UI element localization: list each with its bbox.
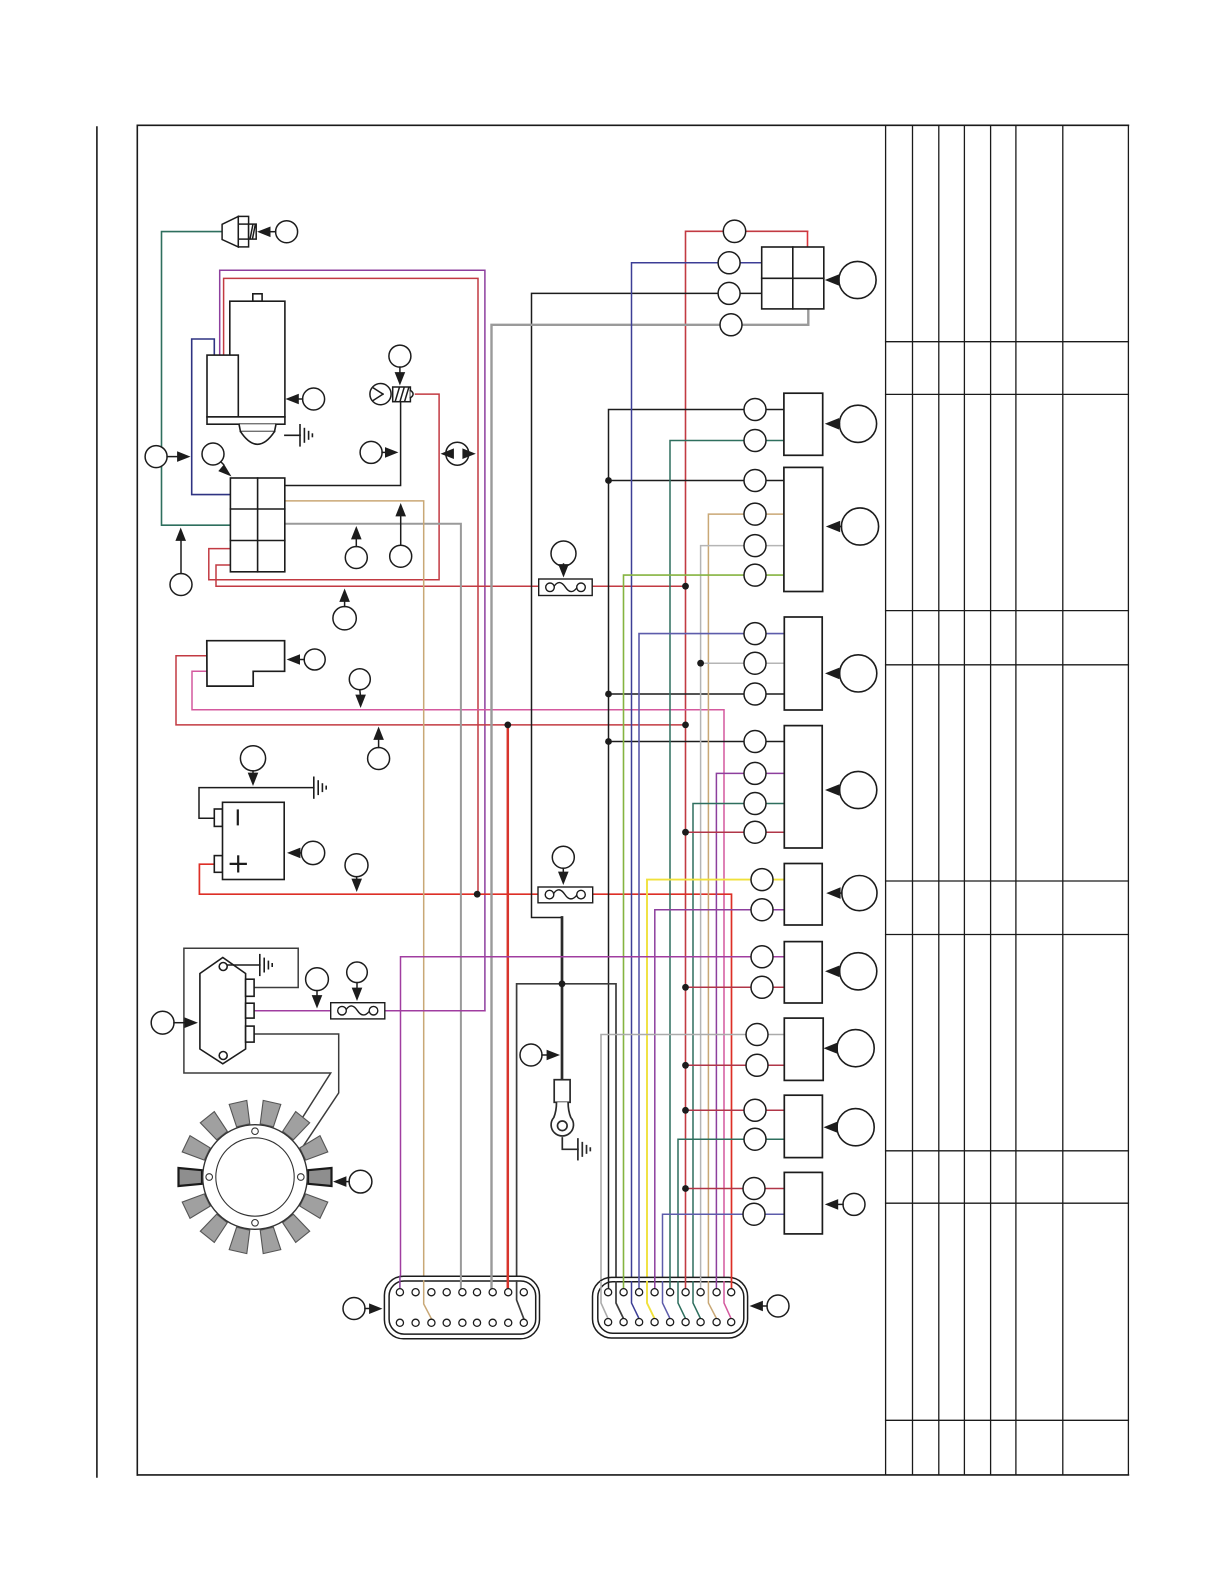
- indicator bulb L1: [370, 384, 413, 405]
- wire: main black bus: [609, 410, 785, 1289]
- harness connector J1 pin circles: [396, 1289, 527, 1327]
- wire: battery positive to fuse F2 (red): [199, 864, 538, 894]
- node: red bus junction at C8: [682, 1062, 689, 1069]
- wire: CDI pink lead: [192, 671, 731, 1318]
- callout: connector C2: [825, 405, 877, 442]
- ground: battery negative: [314, 777, 326, 798]
- callout: red wires double arrow: [441, 442, 476, 465]
- wire: connector C6 yellow lead: [647, 880, 784, 1319]
- wire: ground link harness to harness (dark gray): [517, 984, 624, 1319]
- wire: battery negative to ground: [199, 788, 314, 819]
- callout: ring terminal wire: [520, 1044, 560, 1066]
- callout: CDI pink wire: [349, 669, 370, 708]
- node: red bus junction at CDI lead: [682, 722, 689, 729]
- fuse F3: [331, 1003, 385, 1019]
- wire: connector C1 black to ground wire: [532, 293, 762, 917]
- connector C4 pin circles: [744, 623, 766, 705]
- wire: connector C4 blue-violet lead: [639, 634, 784, 1289]
- callout: fuse F1 red wire: [333, 589, 356, 630]
- harness connector J2 (right, 18-pin): [593, 1277, 748, 1338]
- node: black bus junction at C3: [605, 477, 612, 484]
- node: red bus junction at C9: [682, 1107, 689, 1114]
- connector C5 pin circles: [744, 731, 766, 844]
- callout: regulator: [151, 1011, 198, 1034]
- wire: connector C7 red stub: [686, 986, 785, 988]
- CDI unit U1: [207, 641, 285, 686]
- wire: ring terminal to ground: [562, 1138, 578, 1149]
- wire: relay to harness (gray): [285, 524, 461, 1289]
- wire: ring terminal lead (thick black): [561, 918, 564, 1080]
- harness connector J1 internal leads: [400, 1276, 524, 1318]
- callout: starter motor: [285, 388, 324, 410]
- connector C10 pin circles: [743, 1178, 765, 1226]
- wire: connector C5 red stub: [686, 831, 785, 833]
- harness connector J1 (left, 18-pin): [384, 1276, 539, 1339]
- connector C9: [784, 1095, 822, 1157]
- connector C2 pin circles: [744, 399, 766, 452]
- callout: purple wire at fuse F3: [306, 968, 329, 1009]
- node: ground wire junction: [559, 980, 566, 987]
- regulator/rectifier U2: [200, 958, 254, 1064]
- wire: fuse F1 to red bus: [592, 585, 685, 587]
- connector C7: [784, 942, 822, 1003]
- callout: battery: [287, 841, 325, 864]
- stator / alternator G1: [179, 1100, 332, 1253]
- connector C5: [784, 726, 822, 848]
- spark plug P1: [222, 216, 256, 247]
- wire: red feed to harness pin 8 (thick red): [507, 725, 510, 1289]
- connector C9 pin circles: [744, 1099, 766, 1150]
- wire: connector C8 red stub: [686, 1064, 785, 1066]
- wire: bulb to relay (red): [209, 394, 439, 580]
- node: CDI red junction: [504, 722, 511, 729]
- wire: connector C5 purple lead: [716, 773, 784, 1288]
- callout: connector C10: [825, 1193, 865, 1215]
- wire: connector C2 teal lead: [670, 441, 784, 1289]
- callout: harness connector J1: [343, 1298, 383, 1320]
- wire: main red bus: [686, 231, 808, 1289]
- wire: relay to harness (tan): [285, 501, 432, 1319]
- connector C4: [784, 617, 822, 710]
- wire: connector C3 green lead: [624, 575, 784, 1289]
- wire: relay to fuse F1 (red): [216, 565, 539, 586]
- wire: spark plug lead (teal): [162, 232, 231, 526]
- wire: connector C3 light gray lead: [701, 546, 785, 1289]
- wire: starter relay feed (red): [224, 278, 478, 894]
- callout: CDI red wire: [368, 727, 390, 770]
- battery BT1: [214, 802, 284, 879]
- callout: connector C4: [825, 655, 877, 692]
- callout: fuse F1: [551, 541, 576, 578]
- node: red bus junction at C5: [682, 829, 689, 836]
- ground: ring terminal: [578, 1139, 590, 1160]
- harness connector J2 internal leads: [601, 1277, 732, 1318]
- callout: relay gray wire: [345, 526, 367, 569]
- callout: relay blue wire: [145, 446, 190, 468]
- node: black bus junction at C5: [605, 738, 612, 745]
- callout: harness connector J2: [750, 1295, 790, 1317]
- connector C2: [784, 393, 823, 455]
- callout: connector C7: [825, 953, 877, 990]
- wire: purple feed net (fuse F3 / regulator): [254, 957, 784, 1289]
- wire: connector C1 blue lead: [632, 263, 762, 1319]
- diagram frame: [137, 125, 1128, 1475]
- callout: spark plug: [257, 221, 298, 243]
- wire: solenoid feed loop (purple): [220, 270, 485, 1010]
- connector C6: [784, 864, 822, 926]
- starter motor M1: [207, 294, 285, 445]
- left margin rule: [96, 127, 98, 1477]
- wire: fuse F2 to harness (red): [593, 894, 732, 1289]
- wire: connector C8 gray lead: [601, 1035, 784, 1319]
- wire: connector C10 blue-violet lead: [663, 1214, 785, 1319]
- wire: connector C10 red stub: [686, 1188, 785, 1190]
- wire: solenoid coil to relay (navy): [192, 339, 231, 495]
- callout: fuse F3: [347, 962, 368, 1001]
- callout: fuse F2: [552, 846, 574, 885]
- wire: connector C9 red stub: [686, 1109, 785, 1111]
- ground: regulator: [228, 955, 272, 976]
- callout: connector C9: [824, 1109, 875, 1146]
- callout: stator: [333, 1170, 372, 1193]
- callout: connector C8: [824, 1030, 875, 1067]
- connector C10: [784, 1172, 822, 1234]
- node: red bus junction at C10: [682, 1185, 689, 1192]
- node: red bus junction at C7: [682, 984, 689, 991]
- node: battery red junction: [474, 891, 481, 898]
- connector C1 pin circles: [718, 220, 746, 336]
- connector C8: [784, 1018, 823, 1080]
- callout: connector C3: [826, 508, 879, 545]
- node: black bus junction at C4: [605, 691, 612, 698]
- wire: connector C6 purple lead: [655, 910, 785, 1289]
- wire: regulator tab1 loop to stator: [184, 948, 331, 1136]
- wire: relay to bulb (black): [285, 402, 401, 486]
- callout: CDI unit: [287, 649, 326, 670]
- node: gray lead junction at C4: [697, 660, 704, 667]
- callout: teal wire: [170, 528, 192, 596]
- connector C1 (2x2): [762, 247, 824, 309]
- callout: connector C5: [825, 771, 877, 808]
- callout: battery ground wire: [240, 746, 265, 786]
- wire: regulator tab3 to stator: [254, 1034, 339, 1153]
- callout: connector C6: [826, 876, 877, 911]
- connector C3 pin circles: [744, 470, 766, 587]
- callout: battery red wire: [345, 854, 368, 892]
- connector C3: [784, 467, 823, 591]
- callout: relay tan wire: [390, 503, 412, 567]
- callout: bulb socket: [389, 345, 411, 385]
- wire: connector C9 dark teal lead: [678, 1139, 784, 1319]
- harness connector J2 pin circles: [605, 1289, 735, 1326]
- connector C8 pin circles: [746, 1024, 768, 1077]
- ring terminal E1: [551, 1080, 573, 1136]
- wire: connector C1 gray loop (thick gray): [492, 309, 809, 1289]
- node: red bus junction at fuse F1: [682, 583, 689, 590]
- callout: connector C1: [825, 261, 876, 298]
- fuse F2: [538, 887, 593, 903]
- wire: connector C3 tan lead: [708, 514, 784, 1319]
- starter relay K1: [230, 478, 284, 572]
- callout: bulb black wire: [360, 441, 398, 463]
- legend table grid: [886, 125, 1129, 1475]
- ground: starter motor: [285, 425, 313, 446]
- connector C7 pin circles: [751, 946, 773, 999]
- wire: connector C5 dark teal lead: [693, 804, 784, 1319]
- wire: CDI power lead (red): [176, 656, 686, 725]
- wire: connector C1 red pin jumper: [807, 231, 809, 247]
- fuse F1: [539, 579, 593, 596]
- connector C6 pin circles: [751, 869, 773, 921]
- callout: starter relay: [202, 443, 232, 477]
